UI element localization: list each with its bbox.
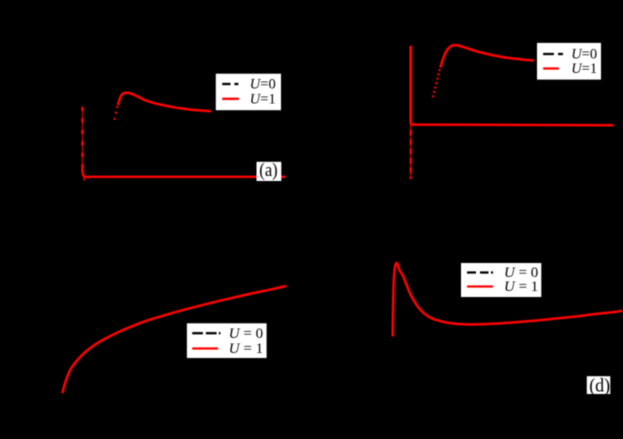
panel b legend: red solid sample U=1	[543, 67, 559, 69]
panel b: thin red connector below	[410, 124, 412, 179]
panel b legend: black dashed sample U=0	[543, 53, 554, 55]
panel a: thin red vertical connector line	[81, 107, 83, 172]
panel a: dotted steep rise of hump	[113, 106, 118, 120]
panel a: red hump curve U=1	[118, 93, 211, 112]
panel b: dotted steep rise of hump	[432, 65, 442, 97]
panel d: label (d) white box	[587, 376, 611, 394]
panel c: legend box	[187, 323, 267, 358]
panel b: dashed red vertical line below axis	[410, 130, 412, 179]
panel b: legend box	[537, 43, 601, 80]
svg-text:U = 0: U = 0	[229, 326, 263, 342]
panel c legend: red solid sample U=1	[192, 347, 218, 349]
panel a legend: red solid sample U=1	[222, 98, 239, 100]
panel d legend: red solid sample U=1	[467, 285, 493, 287]
panel d: red curve U=1	[393, 263, 623, 337]
panel b: solid red vertical line	[409, 46, 412, 124]
panel c legend: black dashed sample U=0	[192, 332, 203, 334]
svg-text:(d): (d)	[589, 377, 610, 397]
panel b: red hump curve U=1	[441, 45, 534, 67]
panel a: flat bottom red line	[88, 176, 285, 178]
svg-text:(a): (a)	[259, 160, 277, 181]
panel a: legend box	[216, 74, 281, 111]
panel c: red curve U=1	[62, 286, 286, 393]
panel a: red dashed vertical line (U=1 steep drop)	[81, 107, 83, 168]
panel a: corner joining drop to flat bottom line	[82, 168, 90, 178]
panel a legend: black dashed sample U=0	[222, 83, 230, 85]
panel d: legend box	[461, 263, 541, 297]
svg-text:U=0: U=0	[250, 77, 276, 93]
svg-text:U = 1: U = 1	[229, 341, 263, 357]
svg-text:U=1: U=1	[250, 91, 276, 107]
panel a: label (a) white box	[257, 162, 282, 181]
panel d legend: black dashed sample U=0	[467, 271, 476, 273]
panel a: small red stub below corner	[83, 177, 85, 181]
svg-text:U=1: U=1	[571, 61, 597, 77]
svg-text:U = 1: U = 1	[504, 279, 538, 295]
panel b: horizontal red line	[410, 123, 613, 126]
